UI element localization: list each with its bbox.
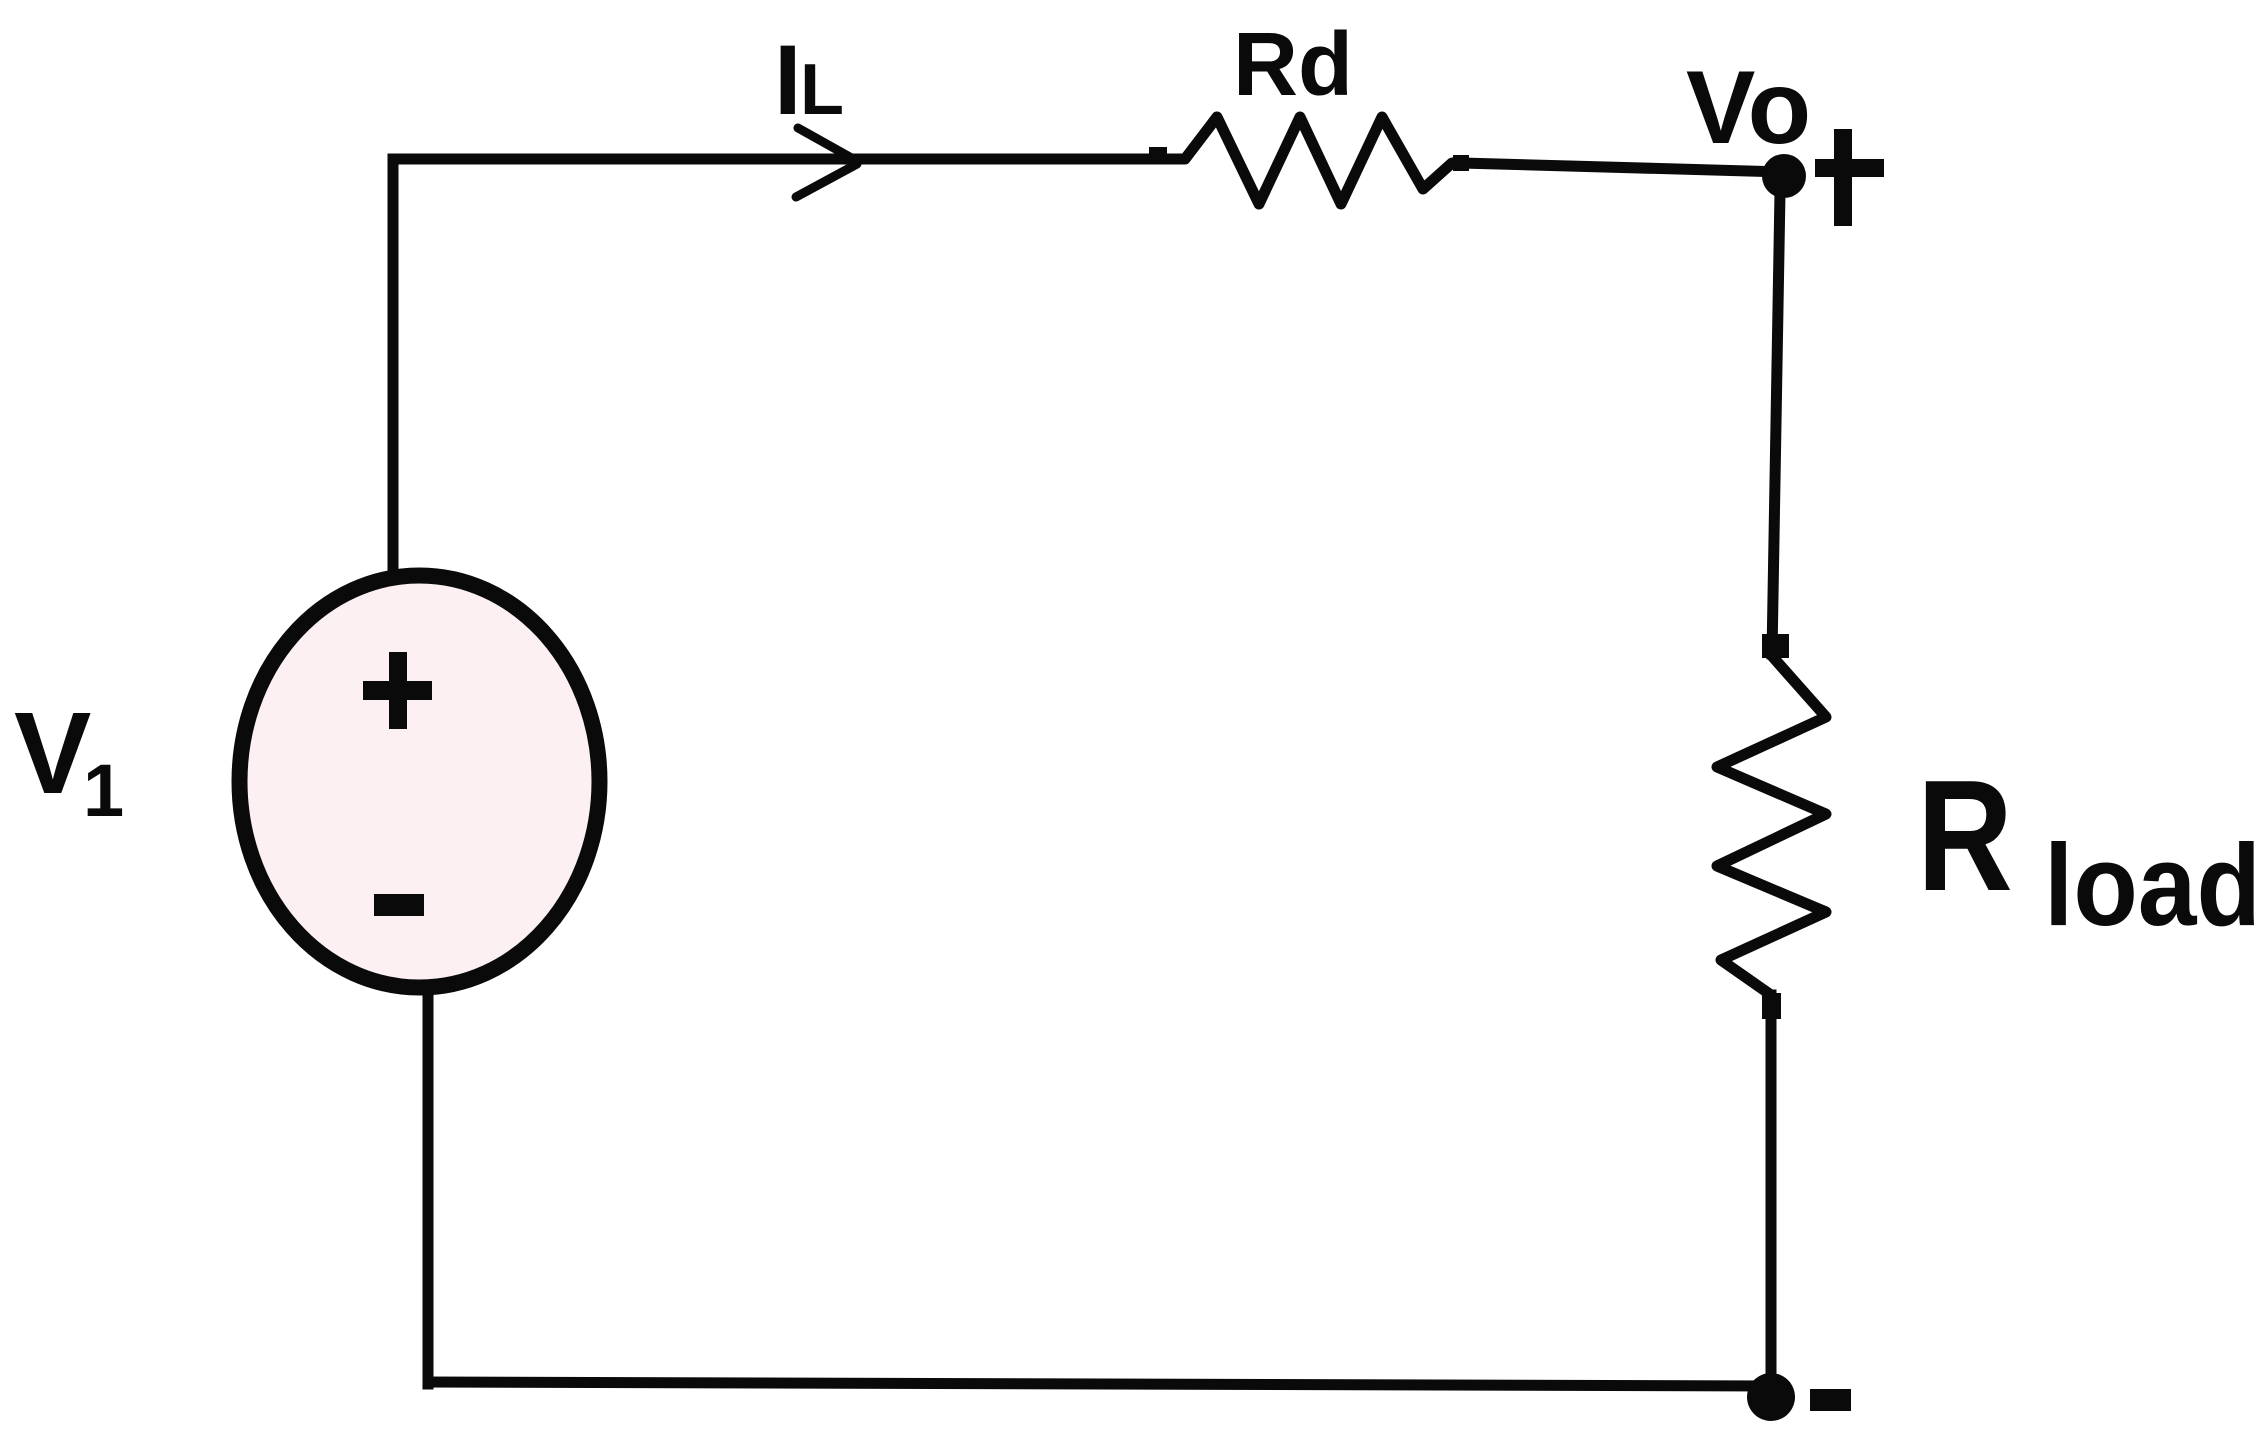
svg-text:I: I — [774, 24, 802, 135]
svg-text:R: R — [1917, 747, 2013, 924]
svg-text:Vo: Vo — [1686, 50, 1811, 166]
svg-text:V: V — [14, 688, 91, 818]
svg-text:load: load — [2044, 820, 2261, 950]
svg-text:1: 1 — [83, 749, 124, 832]
svg-text:L: L — [800, 50, 844, 130]
svg-text:Rd: Rd — [1233, 15, 1353, 115]
